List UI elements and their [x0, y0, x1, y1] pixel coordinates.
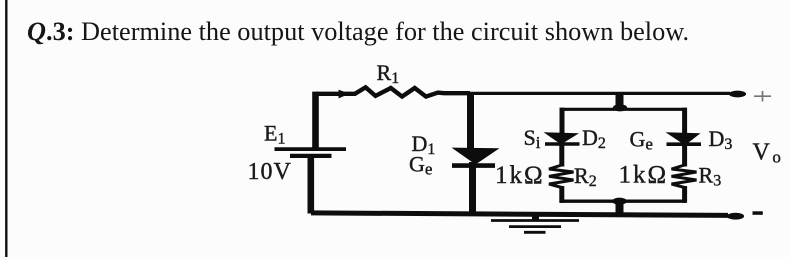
- svg-text:R2: R2: [574, 163, 597, 190]
- svg-text:D3: D3: [709, 126, 733, 153]
- svg-text:Si: Si: [524, 125, 541, 152]
- svg-text:1kΩ: 1kΩ: [619, 162, 669, 189]
- svg-text:Ge: Ge: [630, 127, 653, 154]
- svg-text:10V: 10V: [248, 159, 292, 185]
- svg-text:R3: R3: [699, 163, 722, 190]
- svg-text:Vo: Vo: [753, 140, 781, 167]
- svg-text:1kΩ: 1kΩ: [495, 162, 545, 189]
- svg-text:R1: R1: [377, 60, 400, 87]
- svg-text:D2: D2: [582, 125, 606, 152]
- svg-text:E1: E1: [264, 121, 285, 148]
